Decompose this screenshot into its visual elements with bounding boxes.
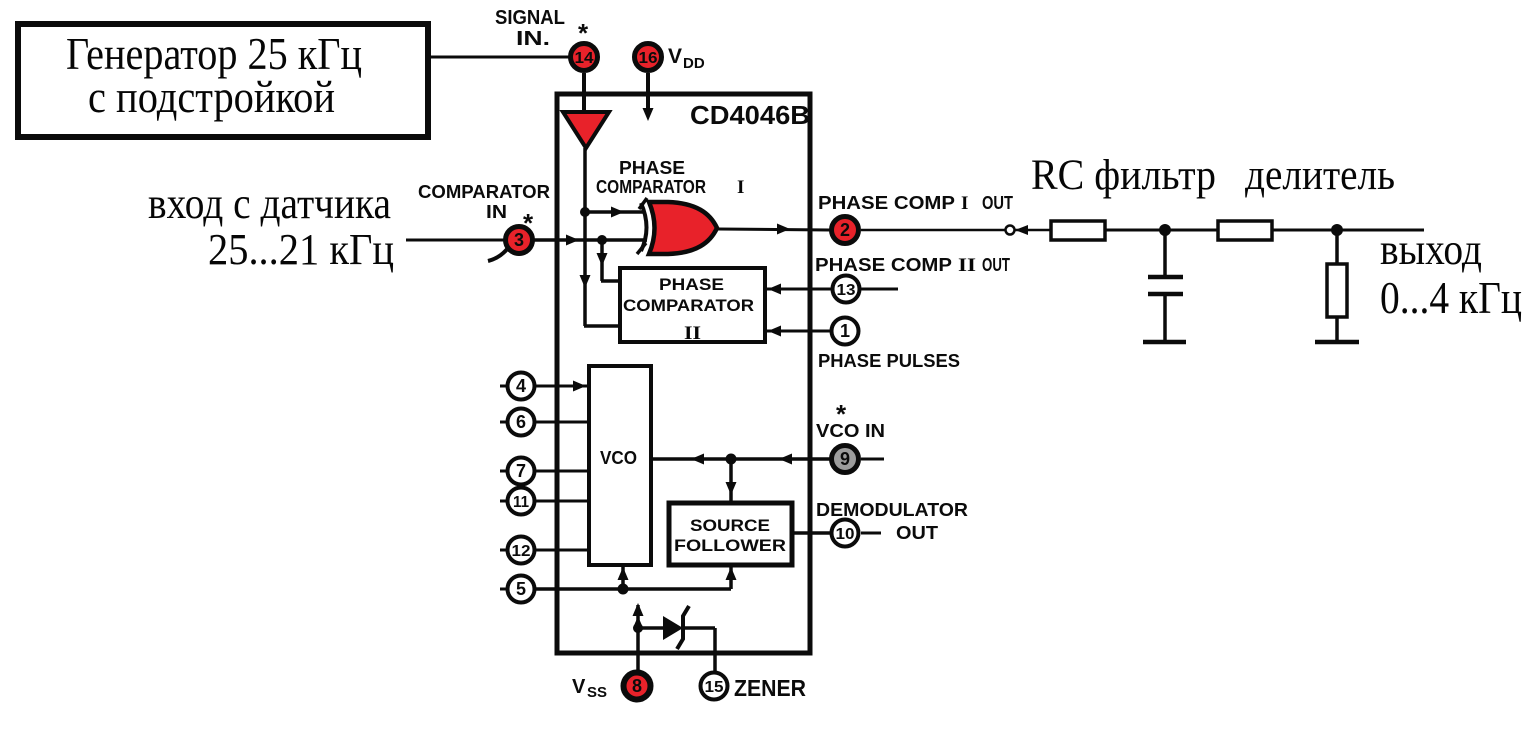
wire to phase comparator II upper input	[597, 240, 619, 281]
pin 16	[635, 44, 662, 71]
amplifier triangle	[563, 112, 609, 148]
wire junction down to source follower	[726, 459, 737, 503]
svg-text:RC фильтр: RC фильтр	[1031, 152, 1216, 199]
XOR gate U1 (phase comparator I)	[637, 198, 717, 254]
wire pin 7 to VCO	[535, 470, 589, 473]
svg-text:OUT: OUT	[896, 523, 938, 543]
pin 7	[500, 458, 535, 485]
source follower box	[669, 503, 792, 565]
pin 5	[500, 576, 535, 603]
wire R2 to output	[1272, 224, 1424, 236]
svg-text:1: 1	[840, 321, 850, 341]
label VSS	[572, 676, 607, 701]
svg-text:вход с датчика: вход с датчика	[148, 179, 391, 228]
svg-text:3: 3	[514, 230, 524, 250]
wire pin 1 to phase comparator II	[765, 326, 830, 337]
capacitor C1	[1148, 230, 1183, 342]
resistor R3	[1327, 230, 1347, 342]
wire pin 14 to amplifier	[582, 73, 586, 112]
wire pin 5 to VCO and source follower	[535, 566, 737, 595]
svg-text:13: 13	[837, 282, 856, 299]
VCO box	[589, 366, 651, 565]
label PHASE COMP II OUT	[815, 255, 1010, 276]
wire pin 13 to phase comparator II	[765, 284, 832, 295]
pin 12	[500, 537, 535, 564]
svg-text:7: 7	[516, 461, 526, 481]
wire pin 2 to RC filter with terminal	[861, 225, 1051, 235]
phase comparator II box	[620, 268, 765, 344]
svg-text:PHASE: PHASE	[659, 275, 724, 294]
svg-text:0...4 кГц: 0...4 кГц	[1380, 273, 1522, 323]
wire pin 16 into chip	[643, 73, 654, 121]
svg-text:VCO: VCO	[600, 448, 637, 468]
generator block	[18, 24, 428, 137]
resistor R2	[1218, 221, 1272, 240]
svg-text:5: 5	[516, 579, 526, 599]
svg-text:I: I	[961, 193, 968, 214]
wire amplifier down to phase comparator II lower input	[580, 148, 619, 326]
IC CD4046B outline	[557, 94, 810, 653]
wire R1 to R2	[1105, 224, 1218, 236]
svg-text:25...21 кГц: 25...21 кГц	[208, 225, 394, 274]
svg-text:PHASE: PHASE	[619, 158, 685, 178]
svg-text:PHASE COMP: PHASE COMP	[818, 193, 955, 213]
resistor R1	[1051, 221, 1105, 240]
pin 10	[832, 520, 882, 547]
wire pin 4 to VCO	[535, 381, 589, 392]
svg-text:II: II	[958, 255, 976, 276]
pin 11	[500, 488, 535, 515]
wire sensor input to pin 3	[406, 239, 505, 242]
wire source follower to pin 10	[792, 531, 831, 535]
svg-text:COMPARATOR: COMPARATOR	[596, 177, 706, 197]
svg-text:V: V	[668, 45, 682, 68]
svg-text:ZENER: ZENER	[734, 675, 806, 701]
svg-text:16: 16	[639, 50, 658, 67]
wire VCO output to pin 9 (VCO IN)	[651, 454, 831, 465]
svg-text:OUT: OUT	[982, 255, 1010, 275]
svg-text:8: 8	[632, 676, 642, 696]
pin 15	[701, 673, 728, 700]
pin 8	[624, 673, 651, 700]
svg-text:делитель: делитель	[1245, 152, 1395, 199]
svg-text:11: 11	[513, 494, 529, 511]
svg-text:SIGNAL: SIGNAL	[495, 7, 565, 29]
pin 4	[500, 373, 535, 400]
ground	[1143, 340, 1186, 345]
svg-text:I: I	[737, 177, 744, 198]
pin 3	[488, 227, 533, 262]
wire pin 11 to VCO	[535, 500, 589, 503]
svg-text:12: 12	[512, 543, 531, 560]
wire pin 8 to zener	[633, 603, 644, 674]
pin 2	[832, 217, 859, 244]
svg-text:4: 4	[516, 376, 526, 396]
svg-text:V: V	[572, 676, 586, 698]
svg-text:DD: DD	[683, 55, 705, 72]
ground	[1315, 340, 1359, 345]
zener diode	[638, 606, 715, 674]
svg-text:OUT: OUT	[982, 193, 1013, 213]
svg-text:*: *	[836, 399, 847, 429]
svg-text:с подстройкой: с подстройкой	[88, 72, 335, 122]
svg-text:COMPARATOR: COMPARATOR	[418, 182, 550, 202]
wire XOR output to pin 2	[718, 224, 830, 235]
svg-text:2: 2	[840, 220, 850, 240]
svg-text:выход: выход	[1380, 225, 1482, 274]
wire pin 12 to VCO	[535, 549, 589, 552]
pin 1	[832, 318, 859, 345]
svg-text:15: 15	[705, 679, 724, 696]
pin 14	[571, 44, 598, 71]
pin 13	[833, 276, 899, 303]
svg-text:SOURCE: SOURCE	[690, 516, 770, 535]
label PHASE COMP I OUT	[818, 193, 1013, 214]
svg-text:IN.: IN.	[516, 28, 550, 50]
wire XOR top input	[585, 207, 644, 218]
svg-text:COMPARATOR: COMPARATOR	[623, 296, 754, 315]
svg-text:9: 9	[840, 449, 850, 469]
svg-text:6: 6	[516, 412, 526, 432]
pin 6	[500, 409, 535, 436]
svg-text:VCO IN: VCO IN	[816, 421, 885, 441]
svg-text:IN: IN	[486, 202, 507, 222]
svg-text:SS: SS	[587, 684, 607, 701]
svg-text:II: II	[684, 323, 701, 344]
pin 9	[832, 446, 885, 473]
svg-text:PHASE COMP: PHASE COMP	[815, 255, 952, 275]
svg-text:14: 14	[575, 50, 594, 67]
svg-text:FOLLOWER: FOLLOWER	[674, 536, 786, 555]
wire generator to pin 14	[428, 56, 569, 59]
svg-text:DEMODULATOR: DEMODULATOR	[816, 500, 968, 520]
label VDD	[668, 45, 705, 72]
svg-text:PHASE PULSES: PHASE PULSES	[818, 351, 960, 371]
svg-text:10: 10	[836, 526, 855, 543]
wire pin 6 to VCO	[535, 421, 589, 424]
svg-text:CD4046B: CD4046B	[690, 100, 810, 130]
wire pin 3 to XOR bottom input	[534, 235, 647, 246]
